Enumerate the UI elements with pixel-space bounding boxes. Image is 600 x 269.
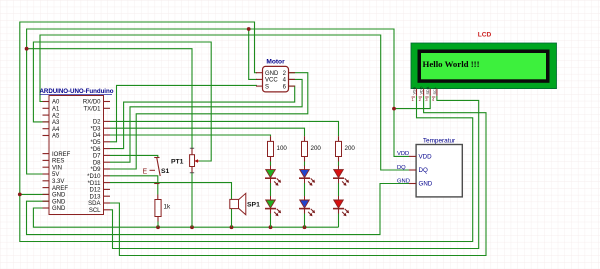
pin LCD VSS (1) — [416, 89, 418, 96]
svg-text:TX/D1: TX/D1 — [83, 107, 101, 113]
pin Motor VCC/4 — [256, 78, 263, 80]
pin D8 (right) — [104, 161, 111, 163]
wire SP1 bottom to ground rail B1 — [231, 209, 233, 228]
svg-text:S: S — [265, 84, 269, 90]
svg-text:A4: A4 — [52, 127, 60, 133]
pin 3.3V (left) — [43, 180, 50, 182]
svg-text:S1: S1 — [161, 168, 170, 175]
svg-text:GND: GND — [52, 206, 66, 212]
wire net D2 to red LED column resistor — [110, 121, 339, 136]
svg-text:Temperatur: Temperatur — [423, 137, 456, 144]
svg-text:RX/D0: RX/D0 — [83, 100, 101, 106]
wire net 5V: Arduino 5V pin up left side, rail T2, down x=394 to Temperatur VDD — [27, 29, 409, 174]
wire net SDA: Arduino SDA down, bottom rail B5, up to LCD pin2 — [110, 96, 486, 256]
wire net D11 to speaker SP1 — [110, 183, 232, 200]
pin SDA (right) — [104, 202, 111, 204]
pin GND (left) — [43, 207, 50, 209]
op board ARDUINO-UNO-Funduino U1 — [40, 88, 114, 215]
pin 5V (left) — [43, 173, 50, 175]
wire net D5 to Motor S pin — [110, 85, 257, 141]
pin A0 (left) — [43, 101, 50, 103]
PT1 wiper arrow — [196, 160, 199, 162]
svg-text:VSS: VSS — [413, 86, 417, 94]
pin RX/D0 (right) — [104, 101, 111, 103]
pin *D3 (right) — [104, 127, 111, 129]
pin Motor S/6 — [256, 85, 263, 87]
pin A3 (left) — [43, 121, 50, 123]
pin *D6 (right) — [104, 148, 111, 150]
svg-text:A2: A2 — [52, 113, 60, 119]
svg-text:SCL: SCL — [433, 87, 437, 94]
wire net GND-A: Motor GND to rail T1, down left side, bottom rail B3, up to LCD pin1 — [20, 22, 473, 242]
svg-text:SDA: SDA — [88, 201, 100, 207]
svg-text:VDD: VDD — [420, 86, 424, 94]
svg-text:200: 200 — [311, 145, 322, 152]
pin A1 (left) — [43, 107, 50, 109]
pin RES (left) — [43, 159, 50, 161]
svg-text:IOREF: IOREF — [52, 152, 71, 158]
svg-text:GND: GND — [52, 193, 66, 199]
pin Temperatur DQ — [409, 169, 416, 171]
svg-text:Hello World !!!: Hello World !!! — [423, 59, 480, 69]
wire net GND-B: Arduino GND2 down, bottom rail B2, up to Temperatur GND — [27, 184, 410, 235]
connector Motor J1 — [256, 59, 295, 92]
pin AREF (left) — [43, 187, 50, 189]
svg-text:AREF: AREF — [52, 186, 68, 192]
svg-text:ARDUINO-UNO-Funduino: ARDUINO-UNO-Funduino — [40, 88, 114, 95]
pin *D11 (right) — [104, 182, 111, 184]
pin IOREF (left) — [43, 153, 50, 155]
svg-text:A3: A3 — [52, 120, 60, 126]
wire LED column x=338.5 internal connections — [338, 162, 340, 167]
svg-text:*D6: *D6 — [90, 147, 101, 153]
pin LCD SCL (4) — [436, 89, 438, 96]
svg-text:A5: A5 — [52, 134, 60, 140]
wire net A3-wiper: Arduino A3 up, rail T4, down to PT1 wiper — [33, 42, 211, 161]
LED D4b blue bottom — [299, 196, 315, 216]
potentiometer PT1 — [171, 148, 199, 173]
svg-text:D8: D8 — [93, 160, 101, 166]
wire branch: LCD pin3 to 5V vertical x=394 — [394, 96, 430, 109]
wire LED column x=270.5 internal connections — [270, 162, 272, 167]
pin *D9 (right) — [104, 168, 111, 170]
junction node SP1 bottom on rail B1 — [230, 225, 234, 229]
wire net D9 to Motor pin 2 (wrap around right) — [110, 73, 308, 169]
wire branch T5: 5V vertical to PT1 top — [27, 49, 192, 149]
sensor Temperatur U2 — [397, 137, 462, 197]
display LCD module — [411, 32, 557, 103]
LED D5r red top — [333, 166, 349, 186]
svg-text:200: 200 — [345, 145, 356, 152]
wire net D4 to green LED column resistor — [110, 135, 271, 136]
svg-text:SCL: SCL — [89, 208, 101, 214]
svg-text:*D10: *D10 — [87, 174, 101, 180]
wire LED column x=304.5 internal connections — [304, 162, 306, 167]
switch S1 (pushbutton) — [143, 158, 170, 184]
svg-text:Motor: Motor — [266, 59, 285, 66]
resistor R1 1k — [155, 200, 171, 217]
svg-text:DQ: DQ — [397, 165, 406, 171]
wire net SCL: Arduino SCL down, bottom rail B4, up to LCD pin4 — [110, 96, 479, 249]
pin A2 (left) — [43, 114, 50, 116]
svg-text:GND: GND — [419, 181, 433, 188]
wire GND1 pin branch to left vertical — [20, 193, 49, 195]
svg-text:RES: RES — [52, 159, 64, 165]
wire net GND-C: Arduino GND3 down, component ground rail B1 — [33, 208, 338, 227]
wire PT1 bottom to ground rail B1 — [191, 173, 193, 228]
pin Motor GND/2 — [256, 72, 263, 74]
svg-text:LCD: LCD — [478, 32, 492, 39]
svg-text:D4: D4 — [93, 133, 101, 139]
LED D3b blue top — [299, 166, 315, 186]
wire net D3 to blue LED column resistor — [110, 128, 305, 136]
svg-text:*D5: *D5 — [90, 140, 101, 146]
svg-text:5V: 5V — [52, 172, 59, 178]
svg-text:D7: D7 — [93, 154, 101, 160]
svg-text:D13: D13 — [89, 194, 101, 200]
LED D1 green top — [265, 166, 281, 186]
wire net D7 to switch S1 top contact — [110, 155, 158, 157]
wire 1k resistor bottom to ground rail B1 — [157, 222, 159, 228]
LED D6r red bottom — [333, 196, 349, 216]
resistor 100 ohm (LED column x=270.5) — [268, 141, 274, 156]
pin A4 (left) — [43, 128, 50, 130]
S1 blade — [157, 158, 160, 176]
pin *D5 (right) — [104, 141, 111, 143]
svg-text:D12: D12 — [89, 188, 101, 194]
junction node blue LED column on rail B1 — [303, 225, 307, 229]
junction node GND1 on left vertical — [18, 193, 22, 197]
pin Temperatur GND — [409, 183, 416, 185]
pin LCD VDD (2) — [423, 89, 425, 96]
speaker SP1 — [230, 193, 260, 215]
svg-text:VIN: VIN — [52, 165, 62, 171]
svg-text:DQ: DQ — [419, 167, 428, 174]
svg-text:A0: A0 — [52, 100, 60, 106]
svg-text:100: 100 — [277, 145, 288, 152]
svg-text:VDD: VDD — [397, 151, 409, 157]
pin VIN (left) — [43, 166, 50, 168]
pin A5 (left) — [43, 135, 50, 137]
svg-text:*D3: *D3 — [90, 126, 101, 132]
svg-text:*D9: *D9 — [90, 167, 101, 173]
pin D13 (right) — [104, 195, 111, 197]
junction node on x=394 vertical at LCD pin3 — [392, 107, 396, 111]
svg-text:3.3V: 3.3V — [52, 179, 64, 185]
svg-text:E: E — [143, 168, 148, 175]
resistor 200 ohm (LED column x=304.5) — [302, 141, 308, 156]
svg-text:D2: D2 — [93, 120, 101, 126]
svg-text:GND: GND — [397, 178, 410, 184]
pin D7 (right) — [104, 154, 111, 156]
wire net A0-DQ: Arduino A0 up, rail T3, down to Temperatur DQ — [40, 35, 409, 170]
wire net D8 to Motor pin 4 (wrap around right) — [110, 79, 302, 162]
svg-text:GND: GND — [52, 199, 66, 205]
wire net D10 to S1 bottom contact and 1k resistor top — [110, 176, 158, 195]
pin GND (left) — [43, 193, 50, 195]
junction node 1k resistor bottom on rail B1 — [156, 225, 160, 229]
pin GND (left) — [43, 200, 50, 202]
svg-text:VDD: VDD — [419, 154, 433, 161]
junction node green LED column on rail B1 — [269, 225, 273, 229]
svg-text:PT1: PT1 — [171, 159, 184, 166]
junction node on T2 rail at Motor VCC branch — [247, 27, 251, 31]
junction node on 5V vertical at T5 branch — [25, 47, 29, 51]
pin D4 (right) — [104, 134, 111, 136]
svg-text:SP1: SP1 — [247, 202, 260, 209]
pin D2 (right) — [104, 120, 111, 122]
svg-text:A1: A1 — [52, 107, 60, 113]
svg-text:*D11: *D11 — [88, 181, 102, 187]
pin *D10 (right) — [104, 175, 111, 177]
pin TX/D1 (right) — [104, 107, 111, 109]
svg-text:1k: 1k — [164, 204, 172, 211]
wire net D6 to Motor pin 6 (wrap around right) — [110, 86, 295, 149]
LED D2g green bottom — [265, 196, 281, 216]
pin LCD SDA (3) — [429, 89, 431, 96]
svg-text:SDA: SDA — [426, 86, 430, 94]
wire branch: T2 rail down to Motor VCC — [249, 29, 257, 79]
resistor 200 ohm (LED column x=338.5) — [336, 141, 342, 156]
svg-text:GND: GND — [265, 71, 279, 77]
pin SCL (right) — [104, 209, 111, 211]
pin Temperatur VDD — [409, 155, 416, 157]
pin D12 (right) — [104, 188, 111, 190]
svg-text:VCC: VCC — [265, 78, 278, 84]
junction node PT1 bottom on rail B1 — [190, 225, 194, 229]
